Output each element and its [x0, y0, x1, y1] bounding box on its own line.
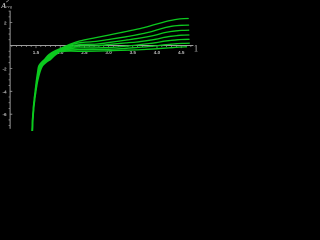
svg-text:4.0: 4.0 [154, 50, 161, 55]
x axis [10, 45, 193, 47]
svg-text:2: 2 [4, 21, 7, 26]
svg-text:1.5: 1.5 [33, 50, 40, 55]
y ticks [9, 11, 13, 126]
curve C5 [32, 39, 189, 131]
svg-text:3.5: 3.5 [130, 50, 137, 55]
curve C3 [32, 30, 189, 131]
curve C1 [32, 19, 188, 132]
script A swash [6, 0, 9, 2]
curve C6 [32, 43, 189, 131]
curve C2 [32, 25, 189, 131]
svg-text:1: 1 [194, 44, 199, 54]
x ticks [12, 45, 191, 48]
curve C7 [33, 47, 187, 131]
svg-text:-2: -2 [3, 66, 8, 71]
svg-text:-6: -6 [3, 112, 8, 117]
curve C4 [32, 35, 189, 131]
svg-text:4.5: 4.5 [178, 50, 185, 55]
svg-text:-4: -4 [3, 89, 8, 94]
y axis [9, 11, 11, 129]
